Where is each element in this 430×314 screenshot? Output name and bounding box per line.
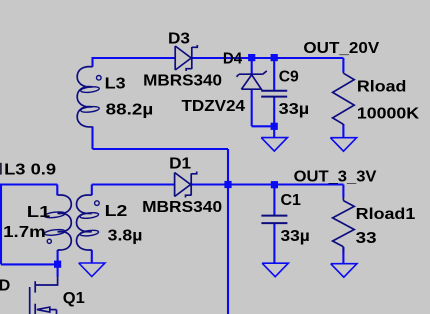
wire mid rail down to OUT_3_3V junction and bottom edge [227, 149, 229, 314]
wire L2 top to D1 anode [92, 183, 175, 185]
svg-text:D: D [0, 278, 10, 295]
label D1 [169, 156, 191, 173]
label D4 [223, 51, 242, 68]
spice directive clipped glyph 2 [0, 163, 2, 175]
label C1 [281, 192, 302, 209]
wire left loop top [1, 185, 57, 196]
svg-text:MBRS340: MBRS340 [143, 73, 222, 90]
inductor L1 [44, 195, 71, 250]
svg-text:L3 0.9: L3 0.9 [4, 162, 56, 179]
wire left edge vertical [0, 184, 2, 265]
svg-text:88.2µ: 88.2µ [106, 102, 154, 119]
svg-text:D3: D3 [168, 31, 190, 48]
junction OUT_3_3V node A [224, 181, 231, 188]
inductor L3 [77, 67, 101, 127]
wire L2 bottom to ground [91, 250, 93, 263]
resistor Rload1 [333, 197, 355, 252]
svg-text:TDZV24: TDZV24 [182, 98, 246, 115]
wire top-left corner at L3 [91, 57, 93, 67]
value 88.2u [106, 102, 154, 119]
junction L1 bottom / Q1 drain node [54, 261, 61, 268]
net OUT_3_3V [294, 169, 377, 186]
ground under Rload1 [331, 263, 357, 277]
junction C9 bottom node [271, 123, 278, 130]
wire D4 top lead [251, 58, 253, 74]
wire D1 cathode to Rload1 corner [192, 185, 343, 198]
svg-text:OUT_20V: OUT_20V [303, 40, 379, 57]
label L2 [105, 203, 128, 220]
value TDZV24 [182, 98, 246, 115]
capacitor C9 [261, 91, 287, 97]
diode D3 [175, 45, 197, 71]
inductor L2 [77, 195, 100, 250]
label L1 [27, 204, 51, 221]
junction D4 top node [248, 54, 255, 61]
wire Rload1 bottom to ground [342, 247, 344, 264]
svg-text:33µ: 33µ [279, 101, 310, 118]
label L3 [105, 76, 126, 93]
junction C1 top node [271, 181, 278, 188]
wire L3 bottom to mid rail [93, 127, 229, 150]
wire C9 bottom lead [273, 97, 275, 137]
zener D4 [237, 71, 267, 89]
svg-text:1.7m: 1.7m [3, 224, 46, 241]
wire left loop bottom [1, 263, 58, 265]
value 33 [356, 230, 377, 247]
ground under Rload [330, 137, 356, 151]
svg-text:Rload: Rload [357, 79, 407, 96]
svg-text:Rload1: Rload1 [356, 206, 416, 223]
label MBRS340 [143, 73, 222, 90]
wire D4 bottom to C9 bottom junction [252, 89, 275, 126]
svg-text:33µ: 33µ [281, 228, 310, 245]
svg-text:D1: D1 [169, 156, 191, 173]
value 33u [279, 101, 310, 118]
svg-text:3.8µ: 3.8µ [108, 228, 143, 245]
svg-text:D4: D4 [223, 51, 242, 68]
svg-text:C1: C1 [281, 192, 302, 209]
wire Rload bottom to ground [342, 124, 344, 137]
wire L2 top corner [91, 185, 93, 196]
wire L1 bottom to junction [57, 250, 59, 264]
wire C9 top lead [273, 58, 275, 90]
label D3 [168, 31, 190, 48]
spice directive K1 L1 L2 L3 0.9 (clipped) [4, 162, 56, 179]
wire C1 bottom lead [273, 224, 275, 264]
value 3.8u [108, 228, 143, 245]
diode D1 [175, 172, 197, 198]
svg-text:MBRS340: MBRS340 [142, 199, 222, 216]
svg-text:10000K: 10000K [357, 106, 420, 123]
svg-text:C9: C9 [279, 69, 299, 86]
value 33u [281, 228, 310, 245]
resistor Rload [333, 72, 355, 126]
value 10000K [357, 106, 420, 123]
svg-text:Q1: Q1 [63, 290, 85, 307]
label Rload [357, 79, 407, 96]
wire top row: L3 top to D3 anode [93, 57, 176, 59]
wire D3 cathode to Rload corner [193, 58, 344, 72]
ground under L2 [79, 263, 105, 277]
svg-text:OUT_3_3V: OUT_3_3V [294, 169, 377, 186]
net label D (clipped) [0, 278, 10, 295]
net OUT_20V [303, 40, 379, 57]
wire junction to Q1 drain [57, 264, 59, 276]
capacitor C1 [261, 216, 287, 224]
svg-text:L3: L3 [105, 76, 126, 93]
svg-text:L1: L1 [27, 204, 51, 221]
label C9 [279, 69, 299, 86]
label MBRS340 [142, 199, 222, 216]
wire C1 top lead [273, 185, 275, 216]
value 1.7m [3, 224, 46, 241]
label Q1 [63, 290, 85, 307]
label Rload1 [356, 206, 416, 223]
svg-text:33: 33 [356, 230, 377, 247]
transistor Q1 [30, 276, 58, 314]
ground under C1 [262, 263, 288, 277]
ground under C9 [261, 137, 287, 151]
junction C9 top node [271, 54, 278, 61]
svg-text:L2: L2 [105, 203, 128, 220]
